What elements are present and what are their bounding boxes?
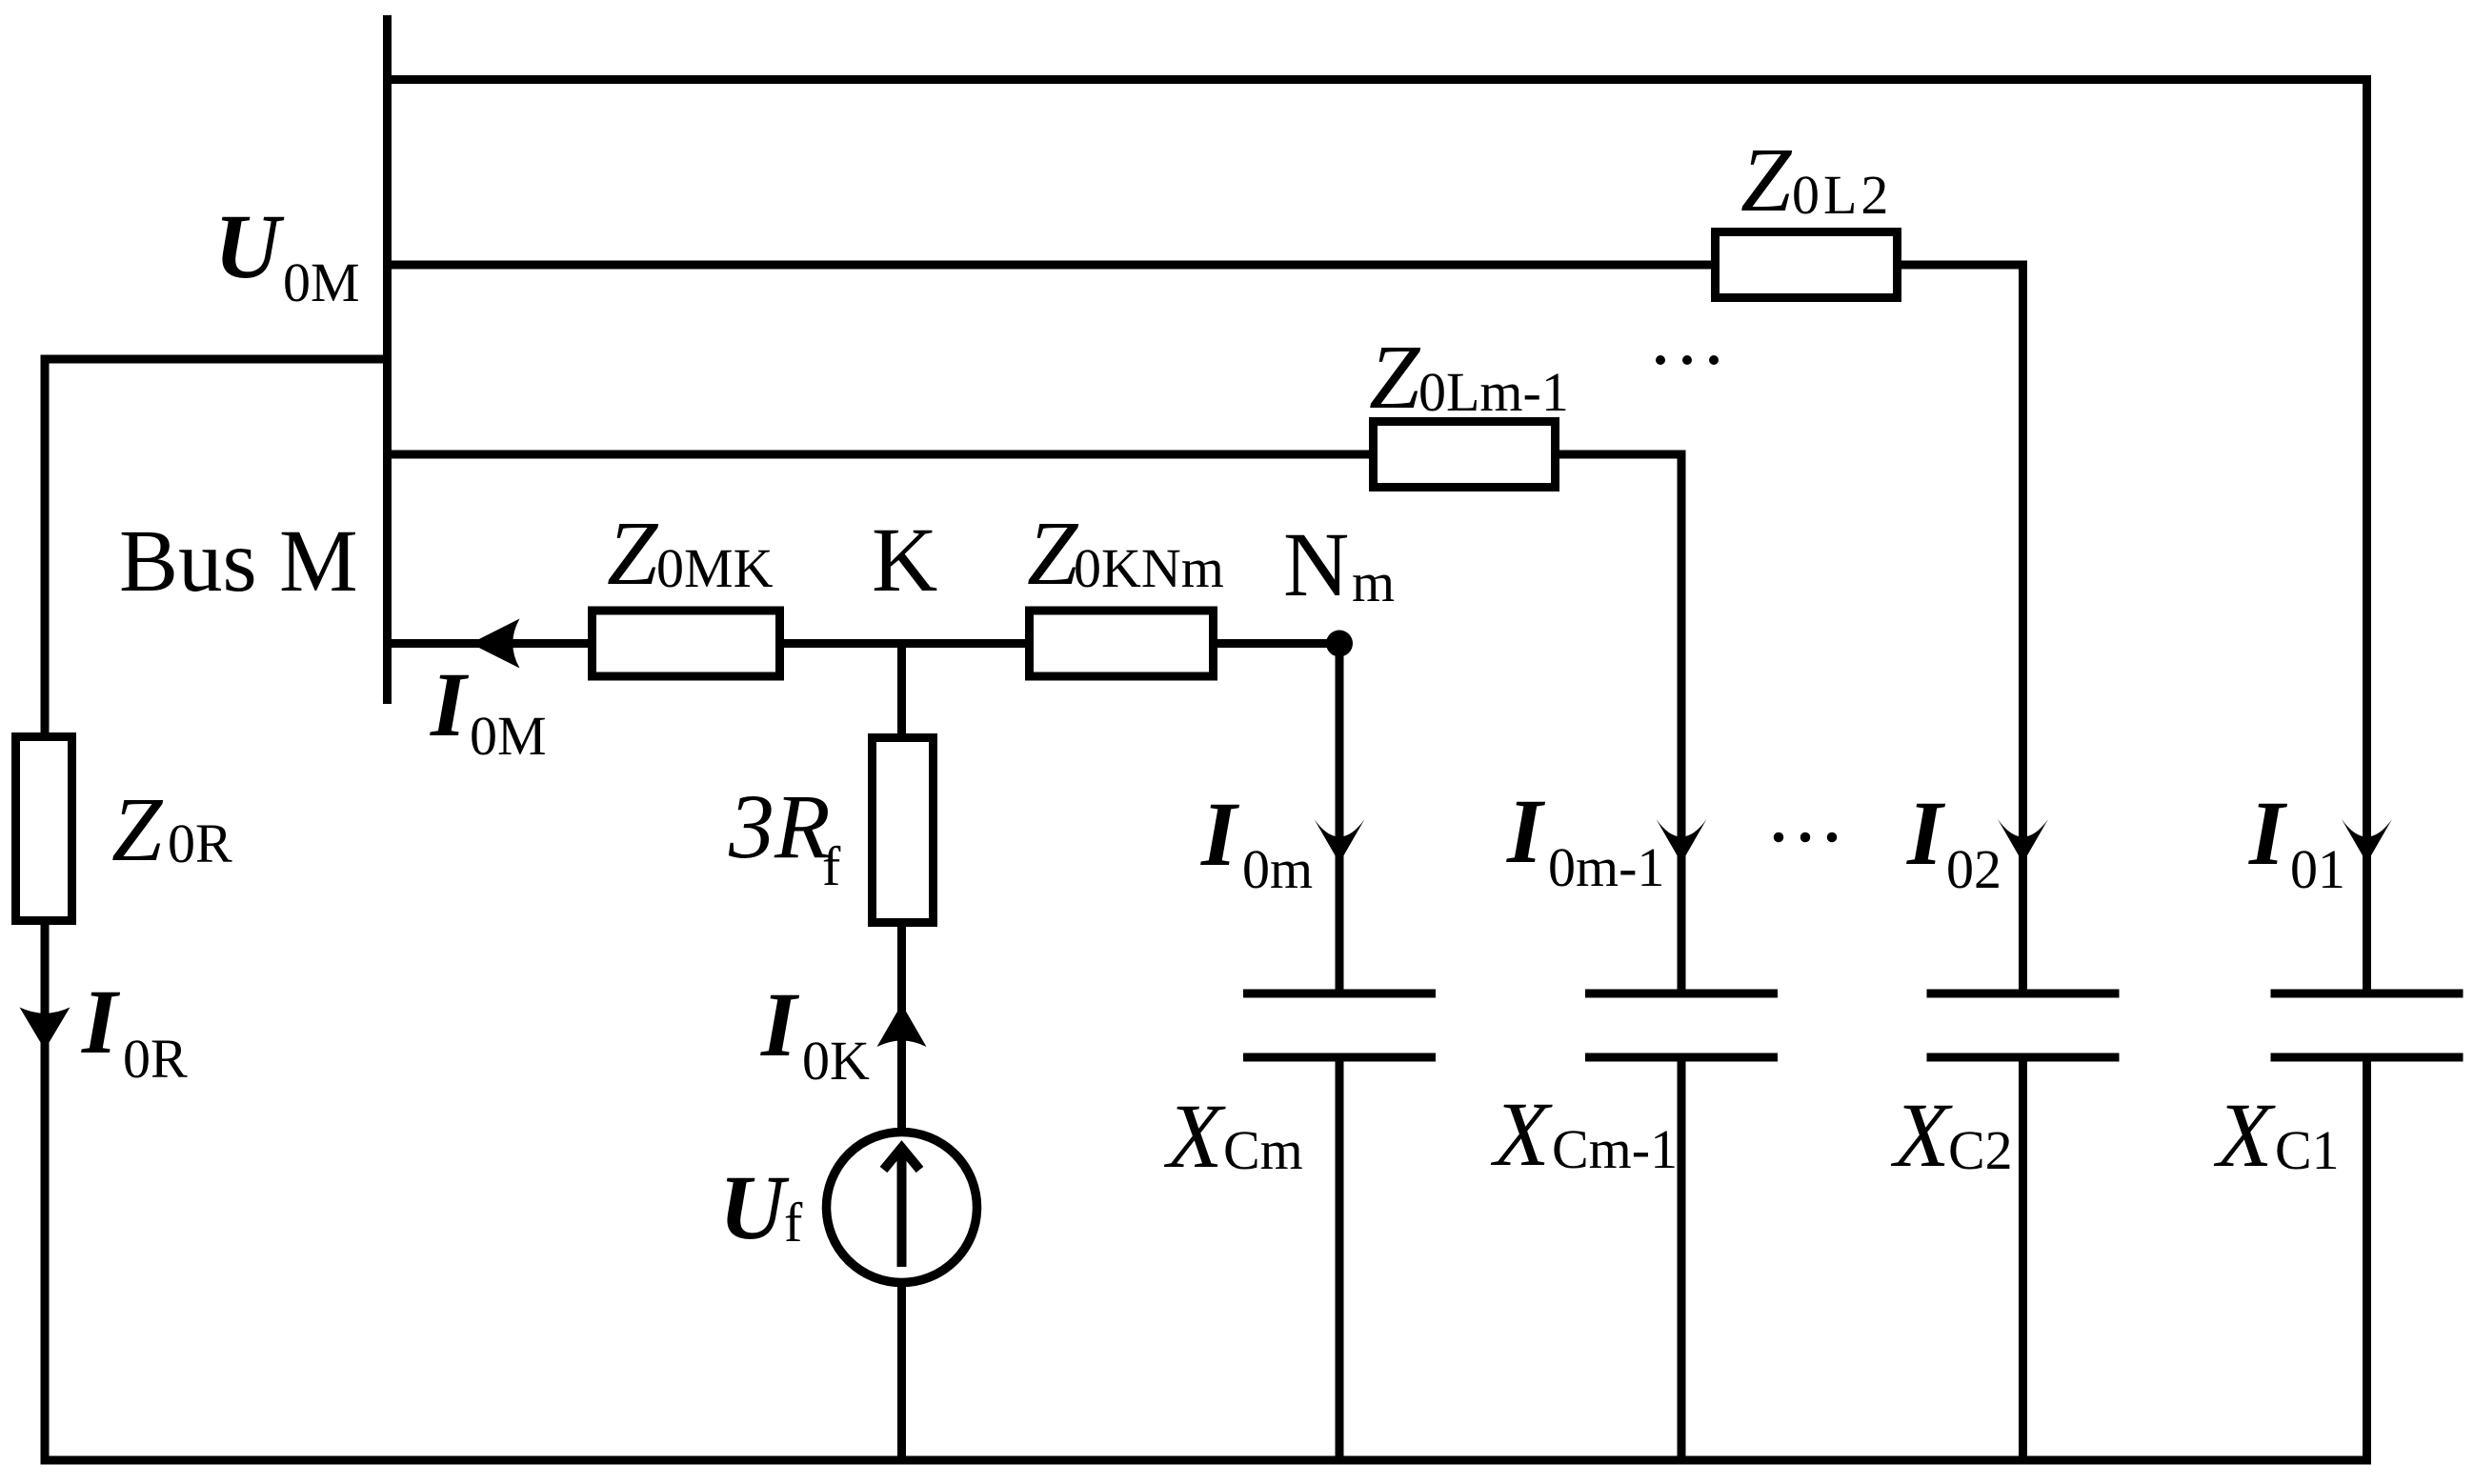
- wire left branch from bus: [41, 355, 388, 364]
- capacitor XC2 top plate: [1927, 990, 2120, 998]
- svg-text:X: X: [1490, 1083, 1553, 1185]
- bottom rail wire: [41, 1456, 2372, 1465]
- svg-text:X: X: [1890, 1084, 1953, 1186]
- svg-text:I: I: [430, 653, 470, 755]
- source Uf internal arrow shaft: [897, 1149, 907, 1267]
- wire capacitor XCm-1 to bottom rail: [1678, 1062, 1686, 1461]
- svg-text:0M: 0M: [470, 705, 547, 767]
- svg-text:Z: Z: [607, 502, 659, 604]
- wire capacitor XC1 to bottom rail: [2363, 1062, 2371, 1461]
- capacitor XCm-1 bottom plate: [1585, 1053, 1778, 1062]
- svg-text:I: I: [1200, 783, 1240, 885]
- resistor Z0KNm: [1030, 611, 1214, 676]
- capacitor XCm top plate: [1243, 990, 1436, 998]
- svg-text:0MK: 0MK: [656, 537, 774, 599]
- resistor Z0Lm-1: [1374, 422, 1556, 488]
- svg-text:Z: Z: [1369, 326, 1421, 428]
- ellipsis dots between lines (top): [1656, 355, 1665, 365]
- svg-text:C1: C1: [2275, 1119, 2340, 1181]
- wire capacitor XC2 to bottom rail: [2019, 1062, 2027, 1461]
- svg-text:Bus M: Bus M: [119, 512, 358, 611]
- capacitor XCm-1 top plate: [1585, 990, 1778, 998]
- svg-text:I: I: [81, 971, 121, 1073]
- wire from Z0Lm-1 right to line-m-1 drop: [1559, 454, 1681, 990]
- svg-text:m: m: [1352, 551, 1395, 613]
- svg-text:I: I: [1506, 780, 1546, 882]
- resistor Z0L2: [1716, 232, 1898, 298]
- svg-text:I: I: [1906, 782, 1946, 884]
- wire Z0KNm to node Nm: [1217, 639, 1339, 648]
- wire 3Rf to source Uf: [897, 927, 906, 1133]
- wire node K down to 3Rf: [897, 644, 906, 734]
- svg-text:01: 01: [2290, 838, 2345, 900]
- bus M vertical bar: [383, 15, 392, 704]
- svg-text:X: X: [1163, 1085, 1226, 1187]
- arrow I0m-1 current down: [1657, 819, 1707, 863]
- svg-text:f: f: [784, 1192, 803, 1253]
- svg-text:Cm-1: Cm-1: [1552, 1118, 1678, 1180]
- arrow I02 current down: [1998, 819, 2048, 863]
- arrow I0R current down: [20, 1008, 70, 1051]
- voltage source Uf circle: [827, 1133, 977, 1283]
- svg-text:Z: Z: [1740, 129, 1793, 231]
- svg-text:I: I: [760, 973, 800, 1075]
- wire capacitor XCm to bottom rail: [1336, 1062, 1344, 1461]
- wire node Nm down to capacitor XCm: [1336, 644, 1344, 990]
- capacitor XC2 bottom plate: [1927, 1053, 2120, 1062]
- svg-text:0K: 0K: [802, 1030, 870, 1092]
- svg-text:f: f: [822, 835, 841, 897]
- svg-text:0Lm-1: 0Lm-1: [1418, 361, 1569, 423]
- svg-text:0R: 0R: [123, 1028, 188, 1090]
- wire source Uf to bottom rail: [897, 1282, 906, 1460]
- svg-text:0m-1: 0m-1: [1548, 836, 1664, 898]
- wire from Z0L2 right to line-2 drop: [1901, 265, 2023, 990]
- capacitor XC1 top plate: [2271, 990, 2464, 998]
- svg-text:0R: 0R: [168, 812, 232, 874]
- svg-text:Z: Z: [1027, 502, 1079, 604]
- resistor Z0R: [16, 737, 72, 921]
- wire top feeder from bus to right edge and down (line L1): [388, 80, 2367, 990]
- source Uf internal arrow head: [884, 1148, 920, 1170]
- svg-text:I: I: [2248, 782, 2288, 884]
- wire Z0R down to bottom rail: [41, 925, 50, 1460]
- svg-text:N: N: [1283, 513, 1349, 615]
- ellipsis dots between branch currents (bottom): [1774, 832, 1784, 843]
- arrow I0K current up: [877, 1004, 927, 1047]
- svg-text:Cm: Cm: [1223, 1119, 1303, 1181]
- svg-text:0m: 0m: [1242, 838, 1313, 900]
- svg-text:Z: Z: [111, 778, 164, 880]
- resistor 3Rf: [873, 738, 934, 923]
- wire row-K from bus to Z0MK: [388, 639, 589, 648]
- svg-text:U: U: [719, 1156, 790, 1258]
- arrow I0M current into bus: [471, 619, 520, 669]
- svg-text:0M: 0M: [283, 251, 360, 313]
- svg-text:3R: 3R: [728, 775, 831, 877]
- svg-text:K: K: [872, 509, 937, 611]
- wire left branch down to Z0R: [41, 359, 50, 732]
- svg-text:U: U: [214, 195, 285, 297]
- svg-text:0L2: 0L2: [1792, 164, 1892, 226]
- resistor Z0MK: [593, 611, 780, 676]
- svg-text:02: 02: [1946, 838, 2001, 900]
- arrow I0m current down: [1315, 819, 1365, 863]
- wire U0M row from bus to Z0L2: [388, 261, 1712, 270]
- capacitor XC1 bottom plate: [2271, 1053, 2464, 1062]
- arrow I01 current down: [2342, 819, 2392, 863]
- capacitor XCm bottom plate: [1243, 1053, 1436, 1062]
- svg-text:C2: C2: [1948, 1119, 2013, 1181]
- svg-text:X: X: [2213, 1084, 2276, 1186]
- wire Z0MK to node K: [784, 639, 1025, 648]
- node Nm junction dot: [1326, 631, 1353, 657]
- svg-text:0KNm: 0KNm: [1074, 537, 1224, 599]
- wire row-3 from bus to Z0Lm-1: [388, 451, 1370, 459]
